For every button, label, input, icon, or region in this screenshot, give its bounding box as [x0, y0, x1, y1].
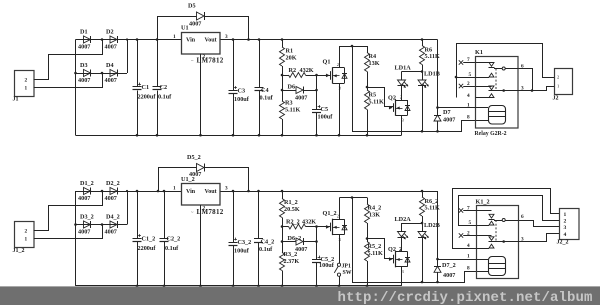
svg-text:8: 8: [467, 266, 470, 272]
svg-text:5.11K: 5.11K: [368, 250, 383, 257]
svg-text:U1_2: U1_2: [181, 176, 195, 183]
svg-text:C1: C1: [142, 84, 150, 91]
svg-text:432K: 432K: [300, 67, 314, 74]
svg-text:C4_2: C4_2: [261, 239, 275, 246]
svg-text:~: ~: [191, 58, 194, 63]
svg-text:1: 1: [173, 34, 176, 40]
svg-text:C3: C3: [238, 88, 246, 95]
svg-text:1: 1: [557, 84, 559, 89]
svg-text:C1_2: C1_2: [142, 236, 156, 243]
svg-text:3: 3: [564, 225, 567, 231]
svg-text:SW: SW: [343, 270, 352, 276]
svg-text:D1: D1: [80, 29, 88, 36]
svg-text:4007: 4007: [295, 246, 307, 253]
svg-text:U1: U1: [181, 25, 189, 32]
svg-text:C4: C4: [261, 87, 269, 94]
svg-text:4007: 4007: [189, 21, 201, 28]
svg-text:J2: J2: [553, 96, 559, 102]
svg-text:13K: 13K: [369, 60, 380, 67]
svg-text:R4: R4: [369, 53, 377, 60]
svg-text:1: 1: [25, 236, 28, 242]
svg-text:LD2A: LD2A: [395, 216, 412, 223]
svg-text:6: 6: [521, 214, 524, 220]
svg-text:100uf: 100uf: [318, 114, 334, 121]
svg-text:Q2_2: Q2_2: [388, 246, 402, 253]
svg-text:8: 8: [467, 115, 470, 121]
svg-text:D5_2: D5_2: [187, 154, 201, 161]
svg-text:2: 2: [467, 81, 470, 87]
svg-text:4007: 4007: [78, 77, 90, 84]
svg-text:2: 2: [25, 77, 28, 83]
svg-text:2: 2: [467, 231, 470, 237]
svg-text:6: 6: [521, 64, 524, 70]
svg-text:4007: 4007: [78, 229, 90, 236]
svg-text:100uf: 100uf: [234, 96, 250, 103]
svg-text:Vout: Vout: [205, 38, 217, 44]
svg-text:3: 3: [225, 34, 228, 40]
svg-text:1: 1: [25, 85, 28, 91]
svg-text:100uf: 100uf: [319, 262, 335, 269]
svg-text:J1_2: J1_2: [13, 248, 25, 254]
svg-text:4007: 4007: [105, 44, 117, 51]
svg-text:1: 1: [173, 186, 176, 192]
svg-text:0.1uf: 0.1uf: [165, 245, 179, 252]
svg-text:5: 5: [469, 220, 472, 226]
svg-text:5.11K: 5.11K: [369, 99, 384, 106]
svg-text:4007: 4007: [105, 195, 117, 202]
svg-text:C2_2: C2_2: [167, 236, 181, 243]
svg-text:R4_2: R4_2: [368, 205, 382, 212]
svg-text:5: 5: [469, 72, 472, 78]
svg-text:D5: D5: [188, 3, 196, 10]
svg-text:2: 2: [337, 62, 339, 67]
svg-text:100uf: 100uf: [234, 248, 250, 255]
svg-text:Q2: Q2: [388, 95, 396, 102]
svg-text:R5: R5: [369, 92, 377, 99]
svg-text:7: 7: [467, 206, 470, 212]
svg-text:JP1: JP1: [342, 264, 351, 270]
svg-text:J2_2: J2_2: [557, 240, 569, 246]
svg-text:K1: K1: [475, 49, 483, 56]
svg-text:2: 2: [25, 228, 28, 234]
svg-text:D7: D7: [443, 109, 451, 116]
svg-text:20K: 20K: [286, 55, 297, 62]
svg-text:4: 4: [467, 93, 470, 99]
svg-text:C5: C5: [321, 106, 329, 113]
svg-text:2: 2: [203, 206, 206, 212]
svg-text:J1: J1: [13, 97, 19, 103]
svg-text:R3: R3: [285, 100, 293, 107]
svg-text:3: 3: [225, 186, 228, 192]
svg-text:4007: 4007: [295, 95, 307, 102]
svg-text:4007: 4007: [443, 272, 455, 279]
svg-text:R1_2: R1_2: [284, 199, 298, 206]
svg-text:4007: 4007: [78, 195, 90, 202]
svg-text:2200uf: 2200uf: [138, 245, 157, 252]
svg-text:D7_2: D7_2: [442, 262, 456, 269]
svg-text:Q1: Q1: [323, 59, 331, 66]
svg-text:LD1A: LD1A: [395, 65, 412, 72]
svg-text:D4_2: D4_2: [106, 214, 120, 221]
svg-text:0.1uf: 0.1uf: [260, 95, 274, 102]
svg-text:D1_2: D1_2: [80, 180, 94, 187]
svg-text:2: 2: [203, 54, 206, 60]
svg-text:5.11K: 5.11K: [285, 107, 300, 114]
svg-text:1: 1: [467, 254, 470, 260]
svg-text:Vout: Vout: [205, 189, 217, 195]
svg-text:4007: 4007: [105, 229, 117, 236]
svg-text:~: ~: [191, 210, 194, 215]
svg-text:C2: C2: [160, 84, 168, 91]
svg-text:R5_2: R5_2: [368, 243, 382, 250]
svg-text:D6: D6: [288, 84, 296, 91]
svg-text:C3_2: C3_2: [238, 239, 252, 246]
svg-text:4007: 4007: [443, 117, 455, 124]
svg-text:1: 1: [564, 212, 567, 218]
svg-text:K1_2: K1_2: [476, 199, 490, 206]
svg-text:20.5K: 20.5K: [284, 206, 300, 213]
svg-text:2.37K: 2.37K: [284, 258, 300, 265]
svg-text:4: 4: [467, 243, 470, 249]
svg-text:D3_2: D3_2: [80, 214, 94, 221]
svg-text:3: 3: [521, 86, 524, 92]
svg-text:2: 2: [337, 214, 339, 219]
svg-text:D6_2: D6_2: [288, 235, 302, 242]
svg-text:2: 2: [564, 219, 567, 225]
svg-text:D2: D2: [106, 29, 114, 36]
svg-text:Vin: Vin: [186, 38, 196, 44]
svg-text:http://crcdiy.pixnet.net/album: http://crcdiy.pixnet.net/album: [338, 290, 593, 305]
svg-text:Q1_2: Q1_2: [323, 210, 337, 217]
svg-text:D2_2: D2_2: [106, 180, 120, 187]
svg-text:7: 7: [467, 57, 470, 63]
svg-text:0.1uf: 0.1uf: [259, 246, 273, 253]
svg-text:3: 3: [521, 237, 524, 243]
svg-text:13K: 13K: [369, 212, 380, 219]
svg-text:R1: R1: [286, 48, 294, 55]
svg-text:Vin: Vin: [186, 189, 196, 195]
svg-text:D3: D3: [80, 62, 88, 69]
svg-text:Relay G2R-2: Relay G2R-2: [475, 131, 507, 137]
svg-text:4007: 4007: [78, 44, 90, 51]
svg-text:4007: 4007: [105, 77, 117, 84]
svg-text:4: 4: [564, 232, 567, 238]
svg-text:2200uf: 2200uf: [138, 94, 157, 101]
svg-text:0.1uf: 0.1uf: [158, 94, 172, 101]
svg-text:2: 2: [557, 75, 559, 80]
svg-text:D4: D4: [106, 62, 114, 69]
